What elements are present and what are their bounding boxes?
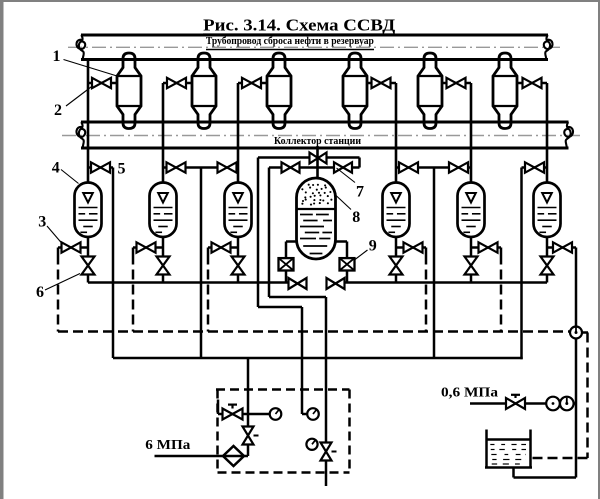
svg-text:5: 5 — [118, 161, 126, 178]
svg-text:Трубопровод сброса нефти в рез: Трубопровод сброса нефти в резервуар — [206, 36, 374, 47]
svg-text:6: 6 — [36, 284, 44, 301]
svg-text:2: 2 — [54, 102, 62, 119]
svg-text:3: 3 — [38, 214, 46, 231]
svg-text:1: 1 — [53, 48, 61, 65]
svg-text:6 МПа: 6 МПа — [145, 438, 190, 453]
svg-text:Коллектор станции: Коллектор станции — [274, 135, 362, 147]
svg-text:8: 8 — [352, 209, 360, 226]
svg-text:9: 9 — [369, 238, 377, 255]
svg-text:7: 7 — [356, 184, 364, 201]
svg-text:0,6 МПа: 0,6 МПа — [441, 386, 498, 401]
svg-text:Рис. 3.14. Схема ССВД: Рис. 3.14. Схема ССВД — [203, 15, 395, 34]
svg-text:4: 4 — [52, 160, 60, 177]
